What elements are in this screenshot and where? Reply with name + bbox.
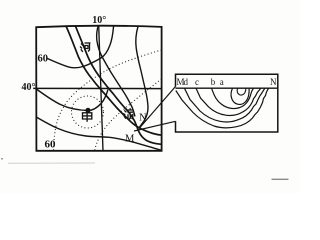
dotted contour arc 1 [54,50,162,151]
meridian 10 line [99,26,103,151]
svg-text:N: N [270,77,277,87]
character liu (flow) [123,108,133,119]
callout line lower [134,121,176,131]
inset contour a innermost [231,88,249,104]
svg-text:a: a [220,77,224,87]
inset water line [176,87,278,89]
dashed circle around jia [72,96,104,128]
speck left edge [1,158,3,160]
svg-text:M: M [125,134,135,145]
inset contour M outer [176,88,269,128]
callout line upper [140,87,176,129]
svg-text:60: 60 [38,54,49,65]
svg-text:N: N [139,113,147,124]
svg-text:60: 60 [45,138,57,150]
svg-text:b: b [211,77,216,87]
character jia (village A) [83,113,92,122]
inset contour b [212,88,254,108]
dotted contour arc 2 [95,79,162,151]
inset tiny inner loop [237,88,246,95]
road through jia village [36,89,108,111]
svg-text:d: d [184,77,189,87]
river left bank [66,26,162,135]
river right bank [75,26,161,144]
river upper fork line [97,26,135,117]
northeast tributary [136,27,148,129]
svg-text:40°: 40° [22,82,36,93]
map frame [36,26,161,151]
gray dash bottom right [272,178,289,180]
inset contour c [196,88,261,115]
jia village dot [85,108,90,113]
inset box with wedge gap [176,74,278,132]
svg-text:c: c [195,77,199,87]
character he (river) [80,43,91,52]
parallel 40 line [33,87,161,89]
svg-text:10°: 10° [92,15,106,26]
contour 60 curve [48,26,114,68]
faint scan line bottom [8,162,95,164]
inset contour d [185,88,265,122]
southern tributary [36,117,161,150]
